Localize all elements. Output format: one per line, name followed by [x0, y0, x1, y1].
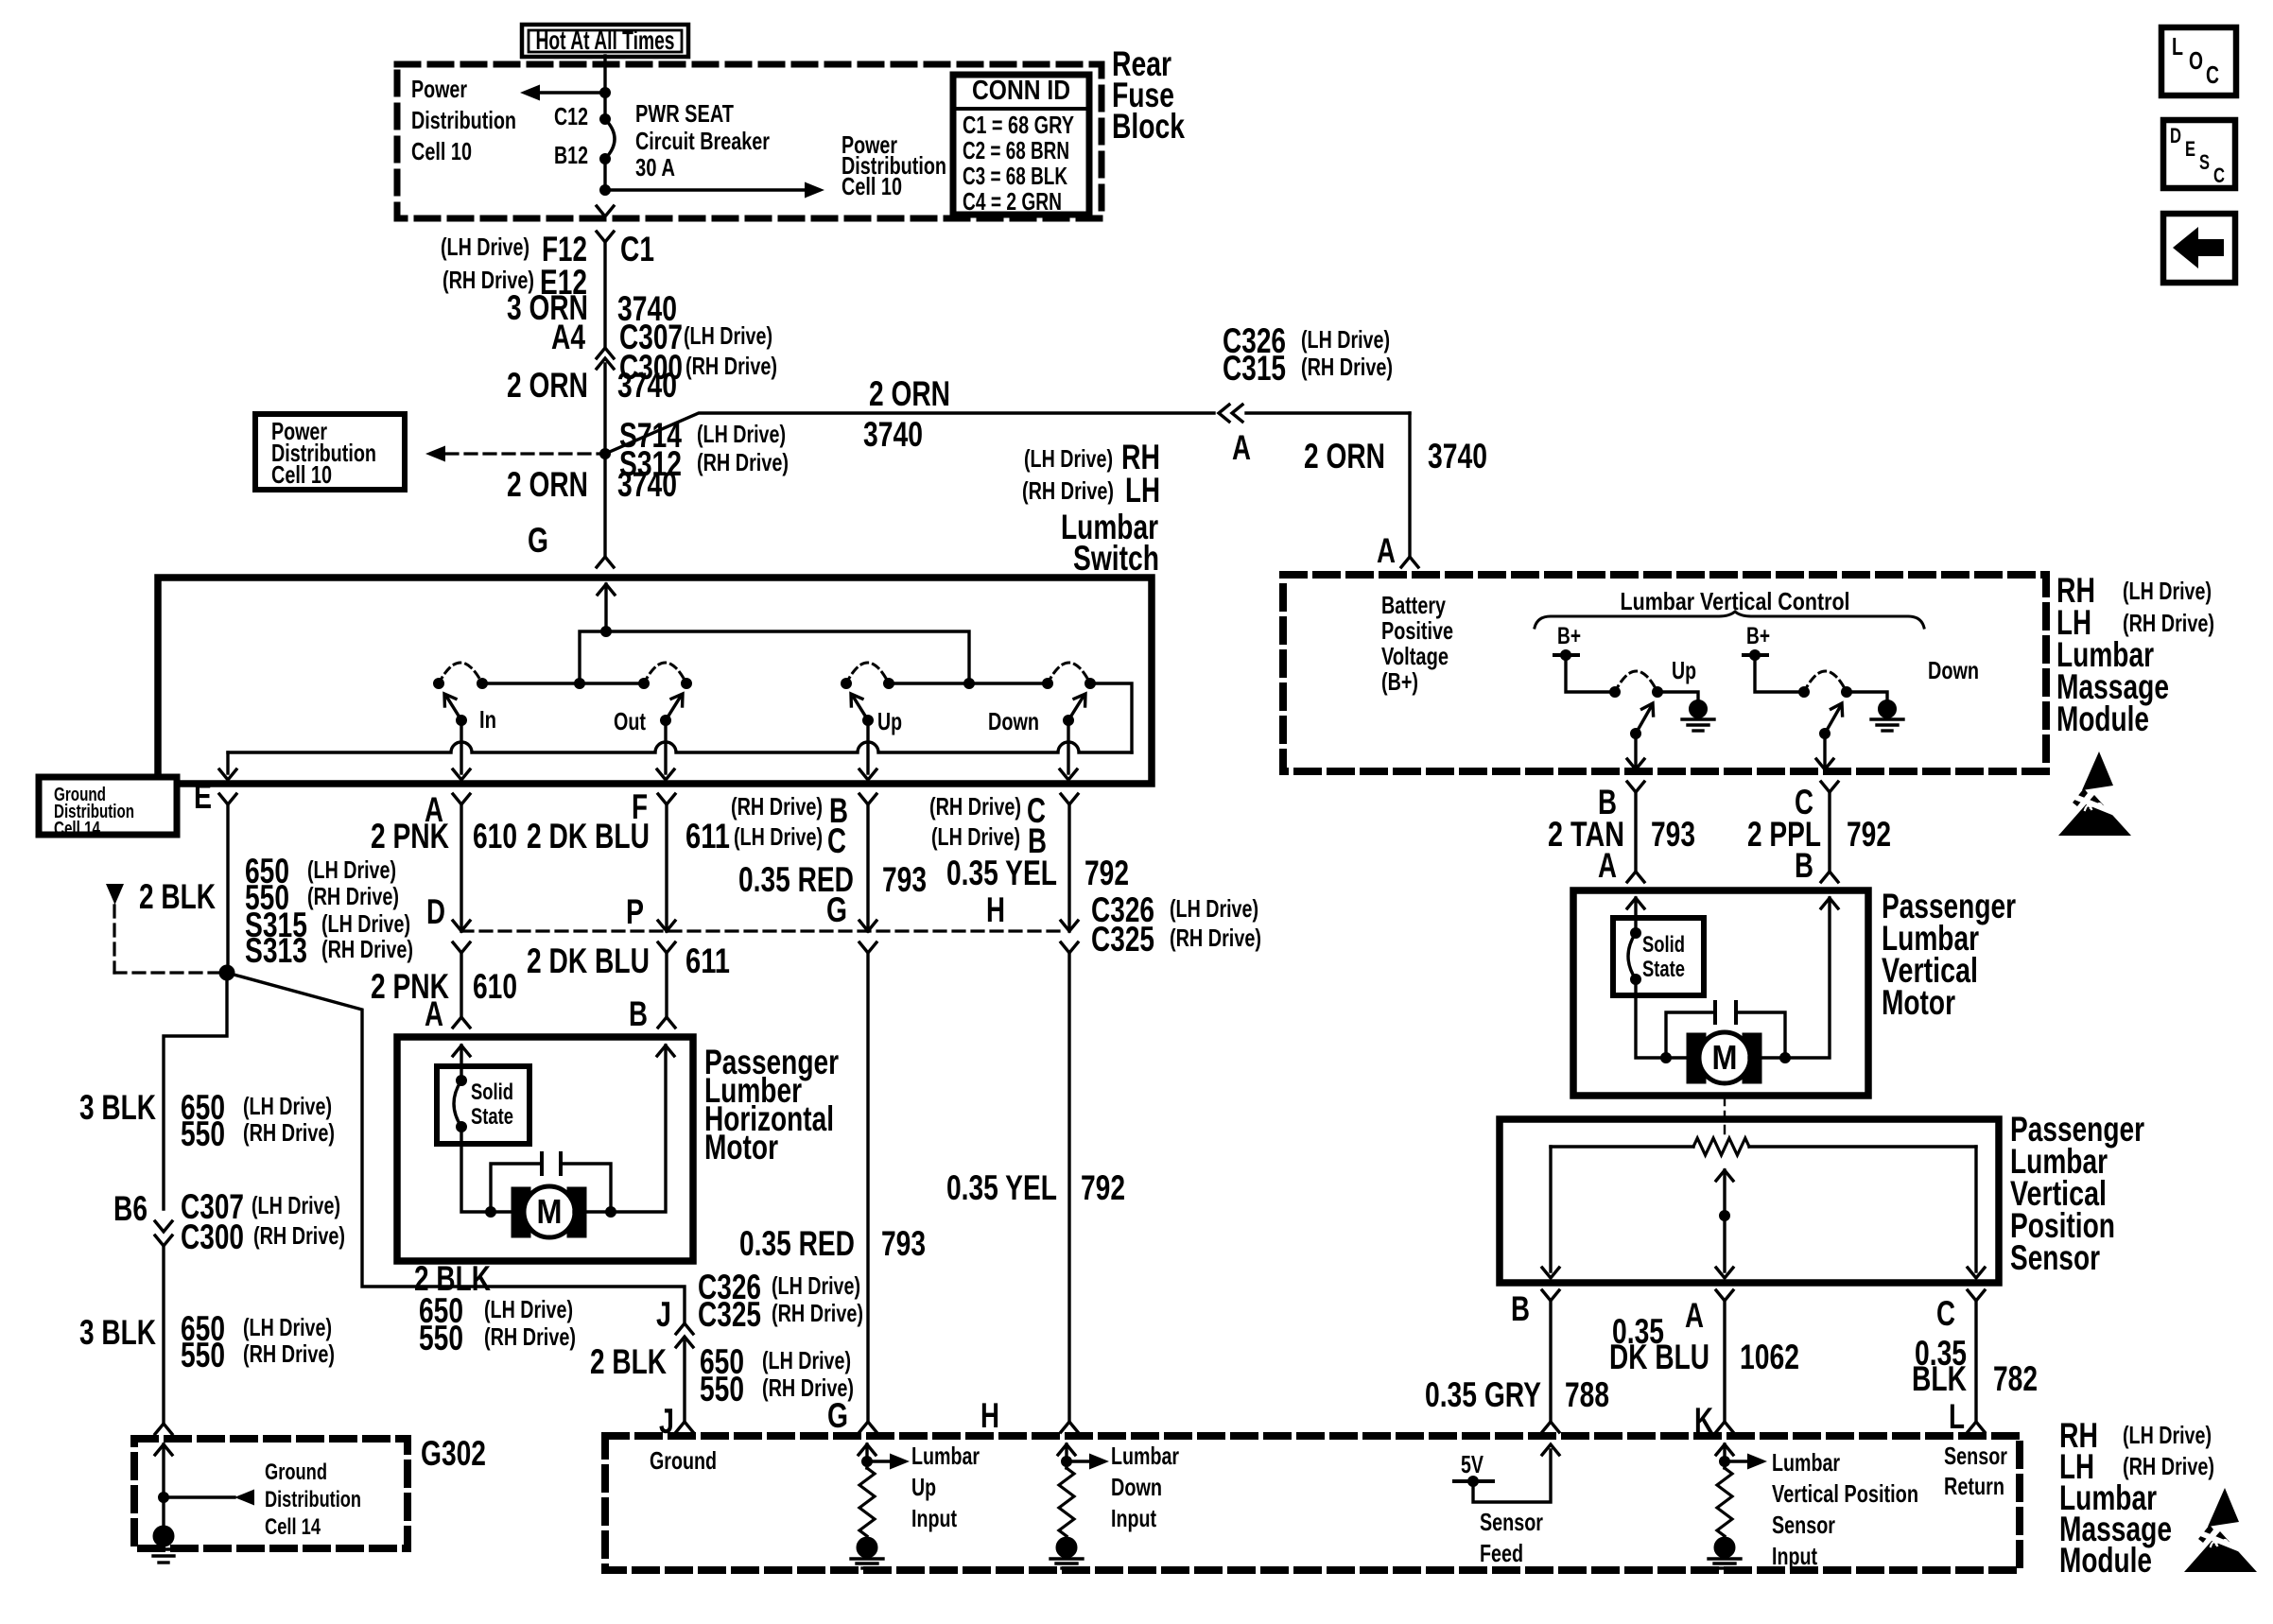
svg-text:2 PNK: 2 PNK	[371, 817, 449, 855]
svg-text:2 BLK: 2 BLK	[139, 877, 216, 916]
connector P arrow	[658, 921, 675, 931]
wire: 0.35 BLK 782	[1974, 1301, 1977, 1422]
connector: bottom module pin G	[859, 1422, 876, 1432]
wire	[491, 1210, 524, 1213]
svg-text:Cell 10: Cell 10	[411, 137, 472, 165]
wire: 3 BLK to G302	[162, 1246, 165, 1424]
node junction	[1720, 1457, 1730, 1467]
Passenger Lumbar Vertical Position Sensor box	[1500, 1119, 1999, 1283]
Power Distribution Cell 10 box	[255, 414, 405, 490]
wire	[1566, 655, 1615, 692]
svg-text:C4 = 2 GRN: C4 = 2 GRN	[963, 187, 1062, 216]
svg-text:550: 550	[181, 1336, 225, 1374]
svg-text:3 BLK: 3 BLK	[79, 1313, 156, 1352]
wire	[153, 1554, 174, 1557]
svg-text:B: B	[1795, 846, 1813, 885]
svg-text:788: 788	[1565, 1375, 1609, 1414]
node junction	[1653, 687, 1663, 698]
svg-text:In: In	[479, 705, 496, 734]
svg-text:L: L	[2172, 32, 2183, 60]
connector: bottom module pin K	[1716, 1422, 1733, 1432]
wire: In-Out contact segment	[483, 682, 643, 684]
node junction	[862, 1457, 873, 1467]
button back arrow	[2163, 214, 2235, 283]
node: B12 terminal	[600, 154, 611, 164]
ground (Down switch)	[1871, 700, 1903, 732]
wire	[159, 1561, 168, 1564]
wire	[1749, 1056, 1785, 1059]
svg-text:C1: C1	[620, 230, 654, 268]
svg-text:Sensor: Sensor	[1944, 1442, 2007, 1470]
svg-text:B6: B6	[113, 1189, 147, 1228]
Ground Distribution Cell 14 box (top)	[39, 777, 177, 835]
wire	[461, 929, 1061, 932]
svg-text:Down: Down	[988, 707, 1039, 735]
svg-text:2 ORN: 2 ORN	[869, 374, 950, 413]
node junction	[1631, 928, 1641, 939]
arrowhead	[671, 694, 683, 706]
wire: 2 ORN 3740 to switch	[603, 454, 606, 557]
wire: 3 ORN 3740	[603, 242, 606, 348]
connector H arrow	[1061, 921, 1078, 931]
wire	[1050, 1557, 1083, 1560]
wire	[1785, 898, 1830, 1058]
node: feed bus junction	[601, 627, 612, 637]
ground symbol G302	[153, 1526, 174, 1546]
svg-text:E: E	[2185, 137, 2195, 161]
svg-text:(LH Drive): (LH Drive)	[1024, 444, 1113, 473]
wire	[1090, 683, 1132, 752]
wire	[164, 973, 227, 1209]
node junction	[575, 679, 585, 689]
wire	[953, 107, 1089, 111]
svg-text:(LH Drive): (LH Drive)	[1301, 325, 1390, 354]
wire to ground (Up)	[1657, 692, 1698, 700]
arrowhead down	[1716, 1268, 1733, 1278]
arrowhead	[1074, 694, 1085, 706]
wire	[147, 1547, 180, 1550]
connector fork	[597, 232, 614, 242]
arrowhead up	[597, 358, 614, 369]
arrowhead up	[1058, 1444, 1075, 1455]
button LOC	[2161, 27, 2236, 95]
arrow into motor B	[1821, 898, 1838, 908]
arrowhead down	[219, 769, 236, 780]
svg-text:0.35 YEL: 0.35 YEL	[946, 854, 1057, 892]
arrow: to Power Distribution Cell 10 right	[805, 182, 824, 199]
svg-text:H: H	[980, 1396, 999, 1435]
svg-text:Voltage: Voltage	[1381, 642, 1449, 670]
svg-text:(RH Drive): (RH Drive)	[697, 448, 789, 476]
svg-text:3 BLK: 3 BLK	[79, 1088, 156, 1127]
svg-text:Hot At All Times: Hot At All Times	[536, 26, 675, 55]
wire	[1666, 1012, 1715, 1058]
arrow into motor B	[657, 1045, 674, 1056]
wire	[1755, 655, 1804, 692]
svg-text:Ground: Ground	[265, 1460, 327, 1485]
connector fork	[658, 942, 675, 953]
svg-text:Solid: Solid	[1642, 932, 1685, 958]
svg-text:Up: Up	[1672, 656, 1696, 684]
svg-text:(LH Drive): (LH Drive)	[684, 321, 772, 350]
wire: 2 ORN 3740	[603, 364, 606, 454]
svg-text:550: 550	[419, 1319, 463, 1357]
svg-text:S313: S313	[245, 931, 307, 970]
wire to motor brush	[461, 1127, 491, 1212]
svg-text:610: 610	[473, 817, 517, 855]
node junction	[682, 679, 692, 689]
node junction	[486, 1207, 496, 1218]
svg-text:C3 = 68 BLK: C3 = 68 BLK	[963, 162, 1067, 190]
svg-text:1062: 1062	[1740, 1338, 1799, 1376]
svg-text:792: 792	[1081, 1168, 1125, 1207]
svg-text:(RH Drive): (RH Drive)	[243, 1118, 335, 1147]
arrow into motor A	[1627, 898, 1644, 908]
connector: bottom module pin (5V)	[1542, 1422, 1559, 1432]
wire: hot feed into fuse block	[603, 56, 606, 119]
node: feed junction	[600, 88, 611, 98]
svg-text:D: D	[2170, 124, 2181, 147]
svg-text:C: C	[2213, 164, 2225, 187]
wire	[1717, 1468, 1732, 1536]
ESD symbol bottom right	[2184, 1488, 2262, 1572]
svg-text:3740: 3740	[617, 465, 677, 504]
svg-text:30 A: 30 A	[635, 153, 675, 181]
arrowhead up	[859, 1444, 876, 1455]
arrow: feed leaves fuse block	[597, 206, 614, 216]
svg-text:793: 793	[1651, 815, 1695, 854]
Passenger Lumber Horizontal Motor box	[397, 1037, 693, 1261]
svg-text:C12: C12	[554, 102, 588, 130]
wire	[867, 1460, 892, 1462]
wire	[1736, 1012, 1785, 1058]
svg-text:Sensor: Sensor	[1772, 1511, 1835, 1539]
wire	[1062, 1566, 1071, 1569]
svg-text:(LH Drive): (LH Drive)	[2123, 1421, 2212, 1449]
wire	[857, 1562, 877, 1564]
connector fork	[676, 1323, 693, 1334]
node junction	[1610, 687, 1621, 698]
svg-text:792: 792	[1084, 854, 1129, 892]
node junction	[434, 679, 444, 689]
CONN ID table	[953, 75, 1089, 215]
wire	[447, 698, 461, 720]
svg-text:Cell 14: Cell 14	[54, 819, 101, 839]
wire	[1473, 1450, 1551, 1502]
connector fork	[219, 794, 236, 804]
svg-text:(RH Drive): (RH Drive)	[1022, 476, 1114, 505]
svg-text:0.35 GRY: 0.35 GRY	[1425, 1375, 1541, 1414]
wire	[1828, 792, 1831, 872]
svg-text:C1 = 68 GRY: C1 = 68 GRY	[963, 111, 1074, 139]
wire	[1068, 698, 1083, 720]
connector: switch pin G	[597, 557, 614, 567]
wire	[561, 1164, 611, 1212]
svg-text:(RH Drive): (RH Drive)	[685, 352, 777, 380]
node junction	[600, 449, 611, 459]
svg-text:Motor: Motor	[704, 1128, 778, 1166]
svg-text:C: C	[1936, 1294, 1955, 1333]
wire	[1720, 1566, 1729, 1569]
wire	[1551, 1145, 1693, 1148]
ground (Up switch)	[1682, 700, 1714, 732]
svg-text:Cell 14: Cell 14	[265, 1514, 321, 1540]
solid state box (horizontal motor)	[437, 1066, 529, 1144]
svg-text:B: B	[629, 994, 648, 1033]
node junction	[1842, 687, 1852, 698]
arrowhead	[444, 694, 456, 706]
wire: sensor B leg	[1549, 1147, 1552, 1271]
arrow into ground	[155, 1444, 172, 1455]
svg-text:Cell 10: Cell 10	[842, 172, 902, 200]
svg-text:Lumbar: Lumbar	[1111, 1442, 1179, 1470]
svg-text:Distribution: Distribution	[265, 1487, 361, 1512]
svg-text:2 ORN: 2 ORN	[507, 366, 588, 405]
wire	[1666, 1056, 1699, 1059]
wire	[1232, 405, 1242, 422]
svg-text:G: G	[528, 521, 548, 560]
node junction	[1561, 650, 1571, 661]
svg-text:G302: G302	[421, 1434, 486, 1473]
wire to motor brush	[1636, 979, 1666, 1058]
Lumbar Massage Module dashed box (bottom)	[605, 1436, 2020, 1570]
arrowhead	[851, 694, 862, 706]
connector fork	[1627, 782, 1644, 792]
arrowhead up	[1716, 1170, 1733, 1181]
wire	[1724, 1097, 1726, 1140]
wire	[1056, 1562, 1077, 1564]
wire: In output	[460, 720, 462, 773]
Lumbar Massage Module dashed box (top right)	[1283, 575, 2046, 771]
wire	[605, 413, 1214, 454]
connector: bottom module pin J	[676, 1422, 693, 1432]
svg-text:Return: Return	[1944, 1472, 2004, 1500]
svg-text:G: G	[826, 890, 847, 929]
motor M (vertical)	[1687, 1033, 1706, 1083]
node junction	[457, 1122, 467, 1132]
wire	[559, 1153, 563, 1174]
svg-text:D: D	[426, 892, 445, 931]
svg-text:Sensor: Sensor	[1480, 1508, 1543, 1536]
wire	[1825, 707, 1840, 734]
node: breaker output junction	[600, 185, 611, 196]
svg-text:Motor: Motor	[1882, 983, 1955, 1022]
svg-text:(RH Drive): (RH Drive)	[307, 882, 399, 910]
connector fork	[859, 794, 876, 804]
button DESC	[2163, 120, 2235, 188]
svg-text:C325: C325	[698, 1295, 761, 1334]
wire	[114, 971, 220, 974]
connector into G302	[155, 1424, 172, 1434]
wire	[1065, 1444, 1067, 1468]
svg-text:2 DK BLU: 2 DK BLU	[527, 817, 650, 855]
svg-text:(LH Drive): (LH Drive)	[734, 822, 823, 851]
svg-text:2 ORN: 2 ORN	[507, 465, 588, 504]
wire	[666, 698, 680, 720]
wire: 0.35 YEL 792	[1067, 804, 1070, 931]
connector fork	[155, 1235, 172, 1246]
svg-text:A4: A4	[551, 318, 585, 356]
svg-text:Module: Module	[2059, 1541, 2152, 1580]
wire: 2 ORN continues	[1246, 411, 1410, 414]
svg-text:(RH Drive): (RH Drive)	[1170, 924, 1261, 952]
svg-text:CONN ID: CONN ID	[972, 76, 1070, 106]
solid-state switch arc	[1628, 933, 1636, 979]
connector fork	[1061, 942, 1078, 953]
svg-text:Feed: Feed	[1480, 1539, 1523, 1567]
wire	[851, 1557, 883, 1560]
wire	[862, 1566, 872, 1569]
svg-text:Input: Input	[1772, 1542, 1817, 1570]
wire	[1634, 792, 1637, 872]
wire: 0.35 YEL 792 long run	[1067, 953, 1070, 1422]
node junction	[606, 1207, 616, 1218]
node junction	[884, 679, 894, 689]
arrowhead down	[155, 1221, 172, 1232]
wire	[460, 1045, 462, 1080]
wire	[491, 1164, 542, 1212]
arrow: to Ground Distribution Cell 14	[234, 1490, 254, 1506]
svg-text:(LH Drive): (LH Drive)	[697, 420, 786, 448]
connector: vertical motor pin B	[1821, 872, 1838, 882]
svg-text:550: 550	[700, 1370, 744, 1408]
svg-text:Input: Input	[911, 1504, 957, 1532]
connector fork	[1821, 782, 1838, 792]
svg-text:State: State	[471, 1104, 513, 1130]
node: ground junction	[159, 1493, 169, 1503]
Lumbar Switch box	[158, 578, 1152, 784]
node junction	[477, 679, 488, 689]
arrow: to Power Distribution Cell 10 box	[425, 446, 445, 462]
node junction	[1631, 729, 1641, 739]
svg-text:0.35 RED: 0.35 RED	[739, 1224, 855, 1263]
svg-text:C315: C315	[1223, 349, 1286, 388]
connector fork	[859, 942, 876, 953]
connector fork	[453, 794, 470, 804]
svg-text:(RH Drive): (RH Drive)	[1301, 353, 1393, 381]
svg-text:(LH Drive): (LH Drive)	[1170, 894, 1258, 923]
svg-text:Block: Block	[1112, 107, 1185, 146]
svg-text:(RH Drive): (RH Drive)	[929, 792, 1021, 821]
connector G arrow	[859, 921, 876, 931]
svg-text:(LH Drive): (LH Drive)	[762, 1346, 851, 1374]
svg-text:H: H	[986, 890, 1005, 929]
solid-state switch arc	[454, 1080, 461, 1127]
svg-text:793: 793	[882, 860, 927, 899]
wire	[1744, 653, 1767, 657]
svg-text:(RH Drive): (RH Drive)	[2123, 1452, 2214, 1480]
svg-text:(RH Drive): (RH Drive)	[243, 1339, 335, 1368]
arrow: to Power Distribution Cell 10	[520, 85, 540, 101]
ground feed marker	[106, 884, 124, 905]
svg-text:(B+): (B+)	[1381, 667, 1418, 696]
svg-text:610: 610	[473, 967, 517, 1006]
svg-text:S: S	[2199, 150, 2210, 174]
wire	[1709, 1557, 1741, 1560]
svg-text:550: 550	[181, 1114, 225, 1153]
node junction	[1043, 679, 1053, 689]
wire	[227, 973, 685, 1323]
svg-text:Solid: Solid	[471, 1080, 513, 1105]
svg-text:P: P	[626, 892, 644, 931]
svg-text:Positive: Positive	[1381, 616, 1453, 645]
arrowhead down	[1060, 769, 1077, 780]
svg-text:A: A	[425, 994, 443, 1033]
wire: 2 PNK 610	[460, 804, 462, 931]
svg-text:(LH Drive): (LH Drive)	[484, 1295, 573, 1323]
wire: switch common bus with jumps	[228, 742, 1132, 752]
svg-text:611: 611	[685, 942, 730, 980]
node junction	[1780, 1053, 1791, 1063]
svg-text:(RH Drive): (RH Drive)	[321, 935, 413, 963]
arrowhead down	[1627, 759, 1644, 769]
node junction	[1085, 679, 1096, 689]
wire: Up output	[866, 720, 869, 773]
svg-text:C300: C300	[181, 1218, 244, 1256]
connector fork	[1968, 1290, 1985, 1301]
node junction	[1661, 1053, 1672, 1063]
wire: Up output	[1634, 734, 1637, 766]
svg-text:State: State	[1642, 957, 1685, 982]
svg-text:793: 793	[881, 1224, 926, 1263]
wire: sensor C leg	[1974, 1147, 1977, 1271]
svg-text:E: E	[194, 777, 212, 816]
svg-text:Input: Input	[1111, 1504, 1156, 1532]
svg-text:A: A	[1685, 1296, 1704, 1335]
svg-text:2 DK BLU: 2 DK BLU	[527, 942, 650, 980]
node junction	[842, 679, 852, 689]
wire: breaker output	[603, 159, 606, 194]
node junction	[639, 679, 650, 689]
svg-text:(LH Drive): (LH Drive)	[441, 233, 529, 261]
node: C12 terminal	[600, 114, 611, 125]
svg-text:Circuit Breaker: Circuit Breaker	[635, 127, 770, 155]
svg-text:M: M	[1712, 1038, 1738, 1077]
svg-text:B+: B+	[1746, 623, 1770, 649]
svg-text:G: G	[827, 1396, 848, 1435]
svg-text:Sensor: Sensor	[2010, 1238, 2100, 1277]
wire	[1714, 1562, 1735, 1564]
ESD symbol top right	[2058, 752, 2136, 836]
connector fork	[1542, 1290, 1559, 1301]
svg-text:Module: Module	[2056, 700, 2149, 738]
connector: motor pin B	[658, 1017, 675, 1028]
svg-text:(LH Drive): (LH Drive)	[307, 855, 396, 884]
wire	[854, 698, 868, 720]
svg-text:Power: Power	[411, 75, 467, 103]
svg-text:M: M	[537, 1192, 563, 1231]
node junction	[1720, 1211, 1730, 1221]
node junction	[1064, 716, 1074, 726]
wire: 2 PNK 610 lower	[460, 953, 462, 1017]
wire	[1713, 1002, 1717, 1023]
connector fork	[597, 348, 614, 358]
arrow into motor A	[453, 1045, 470, 1056]
brace	[1535, 612, 1924, 628]
node junction	[1799, 687, 1810, 698]
wire	[1723, 1170, 1726, 1271]
wire: feed bus	[580, 631, 969, 683]
wire: 2 DK BLU 611 lower	[665, 953, 668, 1017]
connector: bottom module pin H	[1061, 1422, 1078, 1432]
svg-text:C: C	[2206, 60, 2219, 89]
node junction	[1820, 729, 1831, 739]
svg-text:J: J	[656, 1295, 671, 1334]
arrowhead up	[1542, 1444, 1559, 1455]
svg-text:Down: Down	[1111, 1473, 1162, 1501]
connector fork	[658, 794, 675, 804]
svg-text:A: A	[1377, 531, 1396, 570]
